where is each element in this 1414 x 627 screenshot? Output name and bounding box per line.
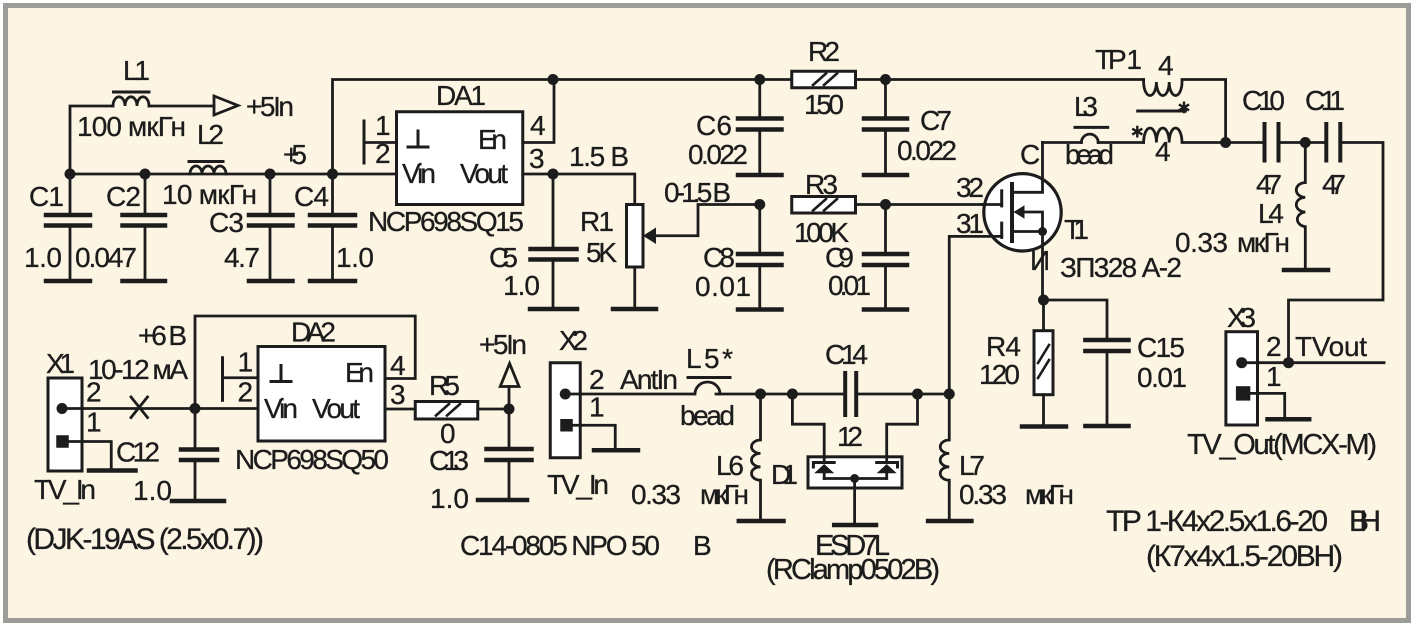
TP1 primary polarity star xyxy=(1179,102,1189,114)
DA1 internal ground symbol xyxy=(408,131,428,147)
wire +5 bus xyxy=(70,173,397,176)
svg-text:1: 1 xyxy=(375,110,391,141)
svg-text:X1: X1 xyxy=(46,348,75,379)
wire R5 to +5In node xyxy=(478,408,509,411)
wire R2 right to TP1 xyxy=(856,78,1144,81)
D1 right diode xyxy=(877,463,898,468)
ground C15 xyxy=(1085,424,1128,429)
wire DA1 pin 1 xyxy=(364,141,397,144)
svg-text:R1: R1 xyxy=(580,206,614,237)
wire R1 bottom xyxy=(633,267,636,307)
wire AntIn xyxy=(565,393,694,396)
svg-text:TV_In: TV_In xyxy=(547,469,609,500)
ground X3 xyxy=(1268,417,1310,422)
wire DA1 pin 3 output 1.5V xyxy=(523,174,635,205)
svg-text:Vout: Vout xyxy=(460,158,508,189)
node D1 left xyxy=(787,389,798,400)
ground R1 xyxy=(613,307,656,312)
svg-text:1.0: 1.0 xyxy=(430,483,469,514)
capacitor C11 xyxy=(1324,124,1328,161)
svg-text:+5: +5 xyxy=(283,139,307,170)
svg-text:C12: C12 xyxy=(116,437,160,468)
node TP1 output xyxy=(1220,137,1231,148)
T1 gate 1 electrode xyxy=(1000,191,1003,206)
wire to C10 xyxy=(1226,141,1263,144)
ground C9 xyxy=(864,307,907,312)
capacitor C9 xyxy=(884,205,887,253)
svg-text:100 мкГн: 100 мкГн xyxy=(77,111,186,142)
svg-text:C15: C15 xyxy=(1137,332,1185,363)
wire pin 31 from gate2 down to L7 xyxy=(949,236,1001,394)
wire source down to R4 node xyxy=(1041,232,1044,301)
svg-text:4: 4 xyxy=(1155,136,1171,167)
svg-text:ТР 1: ТР 1 xyxy=(1095,44,1142,75)
svg-text:3: 3 xyxy=(529,143,545,174)
svg-text:В: В xyxy=(693,530,712,561)
inductor L4 xyxy=(1296,143,1305,268)
svg-text:0.01: 0.01 xyxy=(828,270,871,301)
svg-text:L2: L2 xyxy=(197,119,224,150)
svg-text:ВН: ВН xyxy=(1349,505,1381,538)
regulator DA1 box xyxy=(397,112,523,205)
svg-text:C3: C3 xyxy=(209,207,244,238)
svg-text:NCP698SQ50: NCP698SQ50 xyxy=(235,444,389,475)
resistor R2 xyxy=(792,71,856,88)
capacitor C7 xyxy=(884,80,887,117)
svg-text:2: 2 xyxy=(1266,331,1282,362)
node C8 xyxy=(754,199,765,210)
node DA2 input xyxy=(190,403,201,414)
D1 anode rail xyxy=(824,477,887,480)
wire +6V feedback rail xyxy=(195,316,415,409)
resistor R4 xyxy=(1042,300,1045,331)
node C2 xyxy=(140,169,151,180)
svg-text:En: En xyxy=(478,124,507,155)
svg-text:Vin: Vin xyxy=(264,393,298,424)
svg-text:C4: C4 xyxy=(294,181,329,212)
svg-text:+6 В: +6 В xyxy=(138,320,187,351)
capacitor C5 xyxy=(552,174,555,247)
svg-text:1: 1 xyxy=(86,407,102,438)
wire X2 pin1 to ground xyxy=(573,425,616,448)
svg-text:C5: C5 xyxy=(489,242,518,273)
inductor L2 xyxy=(190,166,226,174)
svg-text:мкГн: мкГн xyxy=(1025,479,1074,510)
svg-text:3: 3 xyxy=(390,379,406,410)
svg-text:Vout: Vout xyxy=(312,393,360,424)
resistor R5 xyxy=(415,402,478,420)
capacitor C12 xyxy=(194,409,197,448)
wire D1 left drop xyxy=(792,394,824,461)
capacitor C2 xyxy=(144,174,147,213)
wire D1 center to ground xyxy=(853,479,856,523)
svg-text:bead: bead xyxy=(1065,139,1114,170)
node +5 / C4 xyxy=(327,169,338,180)
node L6 xyxy=(755,389,766,400)
svg-text:47: 47 xyxy=(1322,169,1346,200)
ground C5 xyxy=(530,307,577,312)
wire C14 right to gate node xyxy=(858,393,951,396)
ground C7 xyxy=(864,173,907,178)
capacitor C3 xyxy=(269,174,272,213)
svg-text:1: 1 xyxy=(238,347,254,378)
node L4 xyxy=(1300,137,1311,148)
svg-text:4: 4 xyxy=(390,350,406,381)
T1 channel bar xyxy=(1010,184,1014,241)
connector X3 xyxy=(1226,332,1258,425)
wire pin 32 inside circle xyxy=(982,203,1002,206)
X3 pin 2 contact xyxy=(1236,357,1247,368)
TP1 core bar xyxy=(1138,110,1186,113)
svg-text:TV_Out(MCX-M): TV_Out(MCX-M) xyxy=(1187,429,1377,461)
ground L4 xyxy=(1284,268,1328,273)
node 1.5V xyxy=(548,169,559,180)
+5In arrow up xyxy=(508,387,511,410)
svg-text:D1: D1 xyxy=(771,459,798,490)
wire C10 to C11 xyxy=(1281,141,1325,144)
X3 pin 1 contact xyxy=(1236,386,1250,400)
X2 pin 1 contact xyxy=(560,419,573,432)
ground D1 xyxy=(834,523,876,528)
node +5In/C13 xyxy=(504,404,515,415)
node T1 source internal xyxy=(1038,227,1047,236)
svg-text:И: И xyxy=(1030,245,1050,276)
ground X1 xyxy=(89,468,136,473)
inductor L6 xyxy=(752,394,761,519)
transformer TP1 secondary winding xyxy=(1144,128,1226,143)
svg-text:C11: C11 xyxy=(1305,85,1345,116)
svg-text:X2: X2 xyxy=(559,325,588,356)
svg-text:0.33: 0.33 xyxy=(959,479,1007,510)
node L7/gate xyxy=(944,389,955,400)
wire TVout xyxy=(1242,361,1384,364)
svg-text:bead: bead xyxy=(680,400,735,431)
svg-text:L1: L1 xyxy=(123,55,150,86)
node source/R4/C15 xyxy=(1038,295,1049,306)
svg-text:C10: C10 xyxy=(1242,85,1285,116)
connector X2 xyxy=(550,363,580,458)
wire X1 pin2 to DA2 input node xyxy=(62,407,258,410)
X1 pin 1 contact xyxy=(56,435,69,448)
svg-text:мкГн: мкГн xyxy=(700,479,749,510)
wire X3 pin1 to ground xyxy=(1250,393,1284,416)
svg-text:C14-0805 NPO 50: C14-0805 NPO 50 xyxy=(460,530,660,561)
wire X1 pin1 to ground xyxy=(69,442,112,469)
svg-text:150: 150 xyxy=(804,89,844,120)
svg-text:120: 120 xyxy=(979,359,1020,390)
T1 source line xyxy=(1012,230,1043,233)
svg-text:(DJK-19AS (2.5x0.7)): (DJK-19AS (2.5x0.7)) xyxy=(26,523,264,556)
ground C4 xyxy=(310,279,355,284)
wire T1 drain to L3 xyxy=(1043,141,1082,144)
suppressor D1 box xyxy=(808,457,902,488)
svg-text:0.047: 0.047 xyxy=(75,242,137,273)
svg-text:0.33: 0.33 xyxy=(631,479,681,510)
svg-text:C8: C8 xyxy=(703,242,735,273)
svg-text:0.022: 0.022 xyxy=(897,135,957,166)
DA2 ground bar at pin 1 xyxy=(221,358,224,401)
svg-text:12: 12 xyxy=(837,421,863,452)
ground R4 xyxy=(1022,424,1066,429)
node D1 center xyxy=(850,474,859,483)
ground C12 xyxy=(172,499,224,504)
svg-text:L4: L4 xyxy=(1258,198,1284,229)
svg-text:AntIn: AntIn xyxy=(620,364,678,395)
node pin4 on rail xyxy=(548,74,559,85)
svg-text:TV_In: TV_In xyxy=(34,474,96,505)
node C1 xyxy=(65,169,76,180)
T1 body arrow xyxy=(1014,205,1025,219)
D1 left diode xyxy=(813,463,834,468)
svg-text:47: 47 xyxy=(1256,169,1282,200)
svg-text:0.01: 0.01 xyxy=(695,271,751,302)
wire R1 wiper to R3 node xyxy=(655,205,760,236)
svg-text:4.7: 4.7 xyxy=(224,242,260,273)
svg-text:ЗП328 А-2: ЗП328 А-2 xyxy=(1060,252,1182,283)
svg-text:C6: C6 xyxy=(696,110,732,141)
T1 body to source tie xyxy=(1024,212,1043,232)
ground C13 xyxy=(478,498,527,503)
X2 pin 2 contact xyxy=(560,389,571,400)
svg-text:32: 32 xyxy=(956,172,984,203)
inductor L5 bead xyxy=(695,382,720,394)
node TVout xyxy=(1283,357,1294,368)
svg-text:1.5 В: 1.5 В xyxy=(569,141,629,172)
svg-text:1.0: 1.0 xyxy=(24,242,62,273)
wire L1 left lead and corner down to +5 node xyxy=(70,106,113,174)
svg-text:L5*: L5* xyxy=(686,343,733,374)
svg-text:2: 2 xyxy=(375,138,391,169)
svg-text:L6: L6 xyxy=(716,450,744,481)
svg-text:L3: L3 xyxy=(1074,91,1098,122)
ground C3 xyxy=(249,279,293,284)
svg-text:Vin: Vin xyxy=(402,158,436,189)
capacitor C10 xyxy=(1263,124,1267,161)
wire top rail to R2 xyxy=(553,78,792,81)
capacitor C14 xyxy=(843,373,847,415)
wire C11 to X3 drop xyxy=(1289,143,1384,363)
capacitor C15 xyxy=(1085,338,1128,343)
svg-text:(К7х4х1.5-20ВН): (К7х4х1.5-20ВН) xyxy=(1146,540,1343,573)
svg-text:Т1: Т1 xyxy=(1064,214,1089,245)
svg-text:1: 1 xyxy=(1266,361,1282,392)
svg-text:С: С xyxy=(1020,139,1040,170)
svg-text:C14: C14 xyxy=(825,339,868,370)
svg-text:R3: R3 xyxy=(805,169,838,200)
wire +5 node up to top rail xyxy=(333,80,554,175)
svg-text:(RClamp0502B): (RClamp0502B) xyxy=(766,554,940,586)
svg-text:0.33: 0.33 xyxy=(1175,227,1228,258)
capacitor C1 xyxy=(69,174,72,213)
wire R3 right to gate 32 xyxy=(856,203,1002,206)
ground C1 xyxy=(46,279,90,284)
svg-text:DA2: DA2 xyxy=(291,317,336,348)
svg-text:4: 4 xyxy=(530,110,546,141)
wire DA1 pin 4 En up to rail xyxy=(523,80,554,143)
X1 pin 2 contact xyxy=(57,403,68,414)
svg-text:4: 4 xyxy=(1158,50,1174,81)
ground C2 xyxy=(123,279,166,284)
connector X1 xyxy=(48,378,82,471)
node C9 xyxy=(880,199,891,210)
svg-text:En: En xyxy=(345,357,374,388)
svg-text:2: 2 xyxy=(238,377,254,408)
T1 drain line xyxy=(1012,143,1043,193)
svg-text:0.022: 0.022 xyxy=(688,139,748,170)
node C3 xyxy=(265,169,276,180)
wire source node to C15 xyxy=(1044,300,1108,338)
X cut mark xyxy=(131,397,148,418)
ground X2 xyxy=(594,448,638,453)
svg-text:C9: C9 xyxy=(825,242,854,273)
svg-text:L7: L7 xyxy=(959,450,985,481)
wire L1 right lead to arrow xyxy=(149,105,214,108)
svg-text:+5In: +5In xyxy=(479,329,527,360)
capacitor C13 xyxy=(508,409,511,447)
svg-text:0-1.5 В: 0-1.5 В xyxy=(664,177,731,208)
+5In output arrow xyxy=(214,96,238,115)
wire DA2 pin 3 to R5 xyxy=(385,408,415,411)
resistor R3 xyxy=(792,197,856,214)
svg-text:C13: C13 xyxy=(429,445,469,476)
inductor L7 xyxy=(940,394,949,519)
svg-text:2: 2 xyxy=(589,364,605,395)
svg-text:C1: C1 xyxy=(29,181,64,212)
DA2 internal ground symbol xyxy=(271,366,291,382)
svg-text:+5In: +5In xyxy=(246,91,294,122)
svg-text:1.0: 1.0 xyxy=(336,242,374,273)
svg-text:0.01: 0.01 xyxy=(1137,362,1187,393)
ground L6 xyxy=(739,519,784,524)
wire DA2 pin 1 xyxy=(223,376,259,379)
transistor T1 body circle xyxy=(984,174,1061,251)
ground L7 xyxy=(928,519,971,524)
svg-text:1: 1 xyxy=(589,392,605,423)
svg-text:10-12 мА: 10-12 мА xyxy=(88,354,188,385)
node C6 xyxy=(754,74,765,85)
svg-text:1.0: 1.0 xyxy=(133,475,172,506)
T1 gate 2 electrode xyxy=(1000,223,1003,237)
inductor L3 bead xyxy=(1081,134,1098,142)
svg-text:ТР 1-К4х2.5х1.6-20: ТР 1-К4х2.5х1.6-20 xyxy=(1106,505,1328,538)
svg-text:DA1: DA1 xyxy=(436,80,486,111)
svg-text:31: 31 xyxy=(956,208,984,239)
svg-text:R5: R5 xyxy=(429,370,460,401)
wire L5 to C14 xyxy=(716,393,843,396)
node D1 right xyxy=(912,389,923,400)
svg-text:X3: X3 xyxy=(1227,302,1256,333)
svg-text:R2: R2 xyxy=(808,36,840,67)
svg-text:TVout: TVout xyxy=(1295,331,1367,362)
DA1 ground bar at pin 1 xyxy=(363,121,366,163)
svg-text:C7: C7 xyxy=(920,105,952,136)
capacitor C6 xyxy=(758,80,761,117)
wire D1 right drop xyxy=(887,394,918,461)
wire L3 to TP1 secondary xyxy=(1098,141,1143,144)
svg-text:C2: C2 xyxy=(106,181,141,212)
svg-text:1.0: 1.0 xyxy=(503,270,540,301)
ground C6 xyxy=(738,173,782,178)
svg-text:NCP698SQ15: NCP698SQ15 xyxy=(368,206,524,237)
capacitor C8 xyxy=(758,205,761,253)
node C7 xyxy=(880,74,891,85)
regulator DA2 box xyxy=(258,347,385,442)
ground C8 xyxy=(738,307,782,312)
potentiometer R1 xyxy=(627,205,644,268)
svg-text:5K: 5K xyxy=(586,237,617,268)
capacitor C4 xyxy=(331,174,334,213)
transformer TP1 primary winding xyxy=(1144,80,1226,143)
TP1 secondary polarity star xyxy=(1132,126,1142,138)
svg-text:R4: R4 xyxy=(986,331,1021,362)
svg-text:мкГн: мкГн xyxy=(1237,227,1290,258)
svg-text:10 мкГн: 10 мкГн xyxy=(162,179,257,210)
inductor L1 xyxy=(113,97,149,106)
